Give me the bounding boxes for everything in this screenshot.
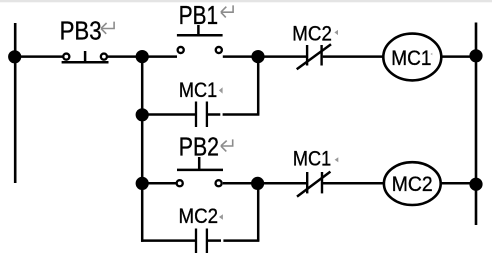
junction dot node A bbox=[136, 50, 149, 63]
pilcrow return mark after PB2 bbox=[221, 139, 233, 151]
svg-text:MC1: MC1 bbox=[179, 79, 217, 102]
wire node C to MC1 contact bbox=[258, 182, 306, 185]
wire branch2 to MC2 contact bbox=[141, 239, 195, 242]
wire MC1 contact to corner bbox=[208, 113, 220, 116]
wire node A to PB1 bbox=[142, 55, 177, 58]
wire MC2 contact to corner branch2 bbox=[208, 239, 221, 242]
wire PB3 to node bbox=[107, 55, 142, 58]
wire MC1 contact to coil MC2 bbox=[323, 182, 385, 185]
pilcrow return mark after PB3 bbox=[101, 22, 114, 34]
junction dot left rail rung1 bbox=[8, 50, 21, 63]
svg-text:MC1: MC1 bbox=[391, 47, 431, 70]
top border line bbox=[0, 0, 492, 2]
small return mark after MC2 branch2 bbox=[219, 214, 223, 220]
junction dot node C bbox=[251, 177, 264, 190]
small return mark after MC1 branch1 bbox=[219, 87, 223, 93]
vertical wire branch2 up to node C bbox=[257, 183, 260, 240]
contact MC1 (NO) branch1 bbox=[196, 102, 207, 128]
coil MC2 bbox=[384, 162, 441, 205]
small return mark after MC2 rung1 bbox=[334, 30, 338, 35]
svg-text:MC1: MC1 bbox=[293, 148, 331, 171]
coil MC1 bbox=[383, 34, 441, 81]
junction dot branch1 left bbox=[136, 108, 149, 121]
contact MC1 (NC) rung2 bbox=[297, 172, 330, 197]
svg-text:MC2: MC2 bbox=[392, 173, 433, 196]
pushbutton PB3 (NC) bbox=[62, 51, 109, 62]
small return mark after MC1 rung2 bbox=[335, 157, 339, 162]
wire PB2 to node C bbox=[223, 182, 258, 185]
pushbutton PB1 (NO) bbox=[177, 25, 223, 53]
svg-text:PB2: PB2 bbox=[179, 132, 219, 162]
wire coil MC2 to right rail bbox=[441, 182, 476, 185]
wire node B to MC2 contact bbox=[258, 55, 306, 58]
svg-text:MC2: MC2 bbox=[292, 23, 332, 46]
wire PB1 to node B bbox=[223, 55, 258, 58]
pushbutton PB2 (NO) bbox=[177, 157, 223, 186]
wire MC2 contact to coil MC1 bbox=[323, 55, 384, 58]
pilcrow return mark after PB1 bbox=[221, 5, 233, 17]
contact MC2 (NO) branch2 bbox=[196, 229, 207, 254]
vertical wire branch2 left bbox=[141, 183, 144, 241]
wire rung1 left rail to PB3 bbox=[15, 55, 64, 58]
tiny return mark after MC1 coil label bbox=[430, 53, 432, 56]
junction dot rung2 left bbox=[136, 177, 149, 190]
svg-text:PB3: PB3 bbox=[60, 15, 102, 45]
junction dot right rail rung1 bbox=[469, 49, 482, 62]
junction dot node B bbox=[251, 50, 264, 63]
svg-text:PB1: PB1 bbox=[179, 0, 218, 30]
vertical wire branch column left bbox=[141, 57, 144, 184]
vertical wire branch1 up to node B bbox=[257, 57, 260, 115]
left power rail bbox=[14, 23, 17, 183]
right power rail bbox=[475, 23, 478, 226]
contact MC2 (NC) rung1 bbox=[297, 44, 331, 69]
wire rung2 to PB2 bbox=[142, 182, 176, 185]
wire coil MC1 to right rail bbox=[441, 55, 476, 58]
wire branch1 to MC1 contact bbox=[142, 113, 195, 116]
svg-text:MC2: MC2 bbox=[179, 205, 219, 228]
junction dot right rail rung2 bbox=[469, 178, 482, 191]
